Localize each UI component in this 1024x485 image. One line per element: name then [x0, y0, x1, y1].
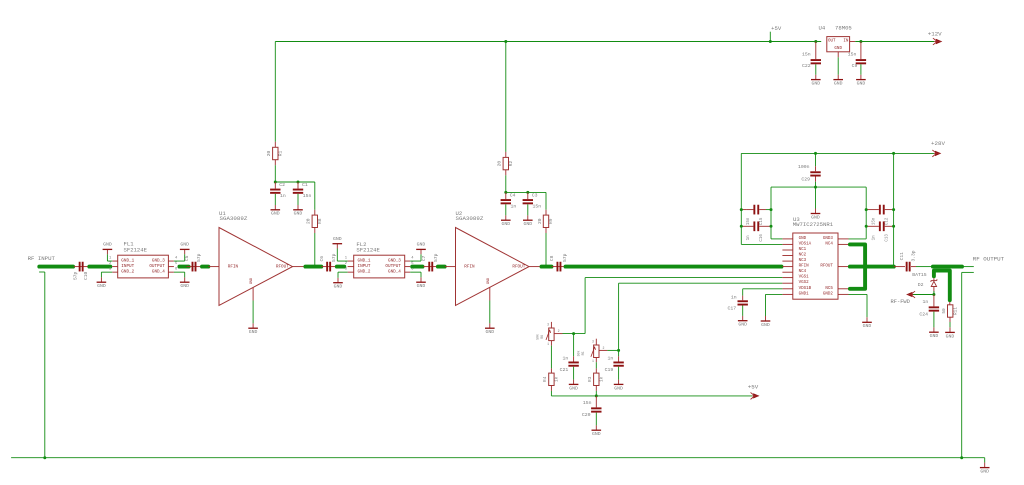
capacitor C12 15n	[879, 205, 881, 215]
svg-text:GND_2: GND_2	[121, 270, 134, 275]
wire RF output shield stub	[962, 271, 974, 273]
capacitor C29 100n	[815, 153, 817, 166]
svg-text:20: 20	[306, 218, 312, 224]
svg-text:VDS1A: VDS1A	[799, 242, 812, 246]
capacitor C5 57p	[187, 266, 202, 268]
junction ground rail C29	[814, 186, 817, 189]
ground below C24	[933, 312, 935, 328]
wire FL1 pin6 to ground	[174, 271, 185, 273]
resistor R2 20	[505, 152, 507, 158]
ground above FL2 pin1	[336, 249, 338, 262]
svg-text:GND: GND	[271, 211, 280, 217]
svg-text:+5V: +5V	[748, 383, 759, 390]
pin GND U2	[489, 288, 491, 301]
wire D2 to detector node	[933, 287, 935, 295]
svg-text:GND: GND	[97, 283, 106, 289]
svg-text:SGA3089Z: SGA3089Z	[456, 215, 484, 222]
svg-text:C2: C2	[279, 182, 285, 188]
svg-text:50k: 50k	[536, 334, 540, 340]
svg-text:C7: C7	[421, 255, 427, 261]
svg-text:GND_1: GND_1	[121, 259, 134, 264]
pin 2 FL2	[348, 266, 354, 268]
junction C13 right	[892, 225, 895, 228]
svg-text:MW7IC2725NR1: MW7IC2725NR1	[793, 221, 834, 228]
wire VGS1 vertical	[584, 278, 586, 334]
svg-text:GND: GND	[980, 469, 989, 475]
wire +12V rail right of U4	[850, 41, 856, 43]
wire +5V top rail	[275, 41, 821, 43]
wire FL2 pin1 to ground	[337, 260, 347, 262]
svg-text:3: 3	[547, 323, 549, 327]
wire detector to RF-FWD	[913, 294, 934, 296]
svg-text:GND: GND	[485, 329, 494, 335]
ground below C20	[595, 413, 597, 426]
svg-text:57p: 57p	[196, 253, 202, 262]
svg-text:RFIN: RFIN	[799, 265, 810, 269]
wire VGS2 vertical	[618, 283, 620, 350]
pin 2 FL1	[112, 266, 118, 268]
svg-text:2: 2	[558, 329, 560, 333]
wire C6 to FL2 thick segment	[337, 265, 345, 269]
svg-text:OUTPUT: OUTPUT	[149, 264, 165, 269]
svg-text:C13: C13	[885, 234, 889, 242]
ground below GND2	[866, 317, 868, 322]
svg-text:1n: 1n	[872, 235, 876, 241]
ground below C19	[618, 367, 620, 380]
svg-text:OUT: OUT	[828, 39, 836, 43]
svg-text:15n: 15n	[303, 193, 312, 199]
wire C7 to U2 thick segment	[438, 265, 445, 269]
svg-text:RFOUT: RFOUT	[276, 264, 289, 269]
pin 5 FL1	[168, 266, 174, 268]
capacitor C24 1n	[933, 295, 935, 307]
svg-text:VGS1: VGS1	[799, 276, 810, 280]
ground below C21	[573, 367, 575, 380]
svg-text:5: 5	[175, 262, 178, 266]
svg-text:GND: GND	[811, 81, 820, 87]
capacitor C7 57p	[423, 266, 438, 268]
ground below C29	[815, 209, 817, 214]
svg-text:C6: C6	[319, 256, 325, 262]
svg-text:1n: 1n	[511, 204, 517, 210]
capacitor C4 1n	[505, 192, 507, 199]
wire input shield stub	[39, 271, 45, 273]
junction C15 left	[740, 208, 743, 211]
wire R6 to R4	[550, 341, 552, 346]
svg-text:GND: GND	[592, 431, 601, 437]
svg-text:RF-FWD: RF-FWD	[890, 299, 909, 305]
wire +28V right vertical	[893, 153, 895, 266]
wire FL2 pin4 to ground	[410, 260, 421, 262]
svg-text:OUTPUT: OUTPUT	[385, 264, 401, 269]
svg-text:GND_3: GND_3	[388, 259, 401, 264]
wire VGS1 net horizontal	[585, 277, 782, 279]
svg-text:GND_1: GND_1	[358, 259, 371, 264]
ground below R11	[949, 327, 951, 332]
wire FL1 pin4 to ground	[174, 260, 185, 262]
svg-text:C11: C11	[899, 252, 905, 261]
svg-text:GND: GND	[250, 278, 254, 284]
svg-text:15n: 15n	[802, 52, 811, 58]
wire R6 wiper to VGS1	[563, 333, 586, 335]
svg-text:GND_3: GND_3	[152, 259, 165, 264]
svg-text:C4: C4	[510, 192, 516, 198]
capacitor C8 57p	[552, 266, 567, 268]
op-amp U2 SGA3089Z	[456, 228, 530, 306]
svg-text:C12: C12	[885, 217, 889, 225]
svg-text:NC3: NC3	[799, 259, 807, 263]
svg-text:20: 20	[537, 218, 543, 224]
junction C12 right	[892, 208, 895, 211]
svg-text:GND: GND	[834, 47, 842, 51]
wire C5 to U1 thick segment	[202, 265, 208, 269]
svg-text:+12V: +12V	[928, 31, 942, 38]
ground below C22	[815, 64, 817, 75]
svg-text:GND: GND	[103, 242, 112, 248]
svg-text:C9: C9	[852, 63, 858, 69]
wire RF output stub	[962, 266, 974, 268]
svg-text:BAT15: BAT15	[912, 272, 927, 278]
junction node1 C1	[297, 181, 300, 184]
wire R4 to +5V rail	[550, 386, 552, 391]
port arrow +28V	[935, 151, 941, 156]
svg-text:VDS1B: VDS1B	[799, 287, 812, 291]
svg-text:GND: GND	[333, 236, 342, 242]
capacitor C3 15n	[527, 192, 529, 199]
svg-text:3: 3	[345, 268, 348, 272]
pin 6 FL1	[168, 271, 174, 273]
pin 1 FL1	[112, 260, 118, 262]
svg-text:100n: 100n	[798, 164, 810, 170]
svg-text:GND: GND	[930, 333, 939, 339]
ground below FL1 pin3	[100, 272, 102, 277]
svg-text:15n: 15n	[583, 400, 592, 406]
capacitor C17 1n	[742, 296, 744, 301]
wire FL1 pin3 to ground	[101, 271, 112, 273]
svg-text:C20: C20	[582, 412, 591, 418]
filter FL1 SF2124E	[118, 255, 169, 278]
junction +28V right	[892, 152, 895, 155]
ground below C17	[742, 306, 744, 316]
svg-text:GND: GND	[799, 237, 807, 241]
svg-text:C5: C5	[184, 255, 190, 261]
svg-text:50k: 50k	[577, 351, 581, 357]
pins U3 left	[782, 238, 792, 240]
svg-text:57p: 57p	[562, 253, 568, 262]
svg-text:C22: C22	[802, 63, 811, 69]
wire R2 to bias node 2	[505, 170, 507, 176]
wire RF line to U3 thick	[566, 265, 782, 269]
trimmer R6 50k	[550, 322, 552, 328]
power amp U3 MW7IC2725NR1	[793, 233, 838, 299]
svg-text:RF OUTPUT: RF OUTPUT	[973, 255, 1005, 262]
wire RFOUT thick	[850, 265, 894, 269]
pin 6 FL2	[405, 271, 411, 273]
junction node2 C3	[526, 191, 529, 194]
svg-text:R2: R2	[508, 161, 514, 167]
wire VGS2 net horizontal	[619, 282, 783, 284]
wire VDS1B to C17	[743, 288, 783, 290]
wire +28V rail	[741, 152, 934, 154]
svg-text:GND: GND	[863, 323, 872, 329]
svg-text:GND: GND	[614, 385, 623, 391]
svg-text:RFIN: RFIN	[464, 264, 475, 269]
pin 3 FL2	[348, 271, 354, 273]
junction node2 C4	[504, 191, 507, 194]
svg-text:1n: 1n	[923, 299, 929, 305]
svg-text:SGA3089Z: SGA3089Z	[220, 215, 248, 222]
svg-text:20: 20	[497, 161, 503, 167]
svg-text:GND: GND	[857, 81, 866, 87]
capacitor C1 15n	[297, 182, 299, 189]
svg-text:4: 4	[411, 256, 414, 260]
svg-text:1n: 1n	[563, 355, 569, 361]
capacitor C10 57p	[74, 266, 89, 268]
capacitor C20 15n	[595, 396, 597, 408]
svg-text:GND: GND	[334, 284, 343, 290]
svg-text:C10: C10	[83, 272, 89, 281]
capacitor C15 15n	[741, 209, 746, 211]
svg-text:15n: 15n	[848, 52, 857, 58]
svg-text:GND3: GND3	[823, 237, 834, 241]
svg-text:NC5: NC5	[825, 287, 833, 291]
pin RFIN U1	[208, 266, 219, 268]
svg-text:C16: C16	[760, 234, 764, 242]
svg-text:+5V: +5V	[771, 25, 782, 32]
svg-text:1n: 1n	[280, 193, 286, 199]
svg-text:GND2: GND2	[823, 292, 834, 296]
svg-text:6: 6	[175, 268, 178, 272]
pin RFOUT U1	[293, 266, 304, 268]
wire RF output thick	[933, 265, 962, 269]
wire C29 to ground rail	[815, 177, 817, 182]
junction C20 tap	[595, 394, 598, 397]
svg-text:GND: GND	[761, 322, 770, 328]
svg-text:GND: GND	[249, 329, 258, 335]
op-amp U1 SGA3089Z	[219, 228, 293, 306]
pin 3 FL1	[112, 271, 118, 273]
wire GND1 pin to ground	[766, 293, 783, 295]
wire +5V drop to R1	[274, 42, 276, 142]
svg-text:NC4: NC4	[825, 242, 833, 246]
svg-text:SF2124E: SF2124E	[356, 247, 380, 254]
svg-text:C17: C17	[728, 305, 737, 311]
resistor R11 50	[949, 302, 951, 305]
svg-text:U4: U4	[818, 25, 825, 32]
wire GND2 to ground	[849, 293, 868, 295]
ground above FL1 pin1	[106, 254, 108, 261]
wire NC4-RFOUT-NC5 thick bracket	[850, 244, 865, 288]
svg-text:R11: R11	[954, 307, 959, 315]
wire FL2 output thick segment	[412, 265, 422, 269]
junction +5V stub	[769, 40, 772, 43]
svg-text:GND: GND	[523, 221, 532, 227]
wire bottom rail	[11, 457, 985, 459]
junction C21 tap	[572, 332, 575, 335]
junction node1 C2	[274, 181, 277, 184]
wire C29 center to GND symbol	[815, 187, 817, 208]
svg-text:R8: R8	[317, 218, 323, 224]
svg-text:GND: GND	[811, 214, 820, 220]
wire ground vertical to U3 GND pin	[771, 238, 782, 240]
wire +5V bottom rail	[551, 395, 752, 397]
svg-text:RFOUT: RFOUT	[820, 265, 833, 269]
svg-text:GND_4: GND_4	[152, 270, 165, 275]
svg-text:1k: 1k	[555, 376, 560, 382]
wire C10 to FL1 thick segment	[89, 265, 110, 269]
junction C15 right	[770, 208, 773, 211]
svg-text:78M05: 78M05	[835, 25, 852, 32]
trimmer R5 50k	[595, 339, 597, 345]
junction C12 left	[865, 208, 868, 211]
svg-text:NC2: NC2	[799, 254, 807, 258]
pin 4 FL2	[405, 260, 411, 262]
svg-text:1n: 1n	[731, 295, 737, 301]
junction C29 on +28V rail	[814, 152, 817, 155]
capacitor C6 57p	[321, 266, 336, 268]
junction C16 left	[740, 225, 743, 228]
capacitor C21 1n	[573, 334, 575, 357]
capacitor C22 15n	[815, 42, 817, 60]
svg-text:NC1: NC1	[799, 248, 807, 252]
svg-text:50: 50	[942, 308, 947, 314]
svg-text:3.3p: 3.3p	[910, 250, 916, 261]
wire R8 to U1 output line	[314, 228, 316, 234]
junction C22 tap	[814, 40, 817, 43]
svg-text:GND: GND	[569, 385, 578, 391]
wire ground vertical left of U3	[770, 187, 772, 239]
wire node2 down to R9	[545, 192, 547, 209]
pin 1 FL2	[348, 260, 354, 262]
pin RFIN U2	[445, 266, 456, 268]
junction C16 right	[770, 225, 773, 228]
svg-text:GND: GND	[417, 283, 426, 289]
wire FL1 pin1 to ground	[107, 260, 112, 262]
pins U3 right	[838, 238, 849, 240]
wire FL2 pin6 to ground	[410, 271, 421, 273]
svg-text:SF2124E: SF2124E	[124, 246, 148, 253]
svg-text:INPUT: INPUT	[358, 264, 371, 269]
svg-text:RFIN: RFIN	[228, 264, 239, 269]
wire ground sub-rail	[771, 186, 866, 188]
capacitor C13 1n	[879, 221, 881, 231]
junction C19 tap	[617, 349, 620, 352]
wire node1 down to R8	[314, 182, 316, 210]
wire +28V to VDS1A pin	[741, 243, 782, 245]
svg-text:GND: GND	[487, 278, 491, 284]
wire RF input thick segment	[39, 265, 73, 269]
svg-text:GND_4: GND_4	[388, 270, 401, 275]
wire bias node 1 horizontal	[275, 181, 315, 183]
svg-text:R9: R9	[548, 218, 554, 224]
svg-text:C19: C19	[605, 367, 614, 373]
svg-text:VGS2: VGS2	[799, 281, 810, 285]
ground above FL2 pin4	[420, 254, 422, 261]
ground below GND1	[765, 316, 767, 321]
svg-text:GND: GND	[180, 242, 189, 248]
ground below FL2 pin3	[337, 272, 339, 278]
svg-text:C3: C3	[532, 192, 538, 198]
capacitor C11 3.3p	[894, 266, 905, 268]
svg-text:1n: 1n	[747, 235, 751, 241]
svg-text:GND1: GND1	[799, 292, 810, 296]
ground below C4	[505, 204, 507, 215]
svg-text:3: 3	[592, 340, 594, 344]
resistor R1 20	[274, 142, 276, 148]
wire R11 to ground	[949, 317, 951, 322]
voltage regulator U4 78M05	[827, 37, 850, 52]
wire bottom rail end down	[984, 458, 986, 463]
svg-text:1: 1	[547, 342, 549, 346]
svg-text:R3: R3	[588, 376, 593, 382]
svg-text:15n: 15n	[747, 217, 751, 225]
junction C9 tap	[859, 40, 862, 43]
svg-text:GND: GND	[417, 242, 426, 248]
ground below FL1 pin6	[184, 272, 186, 277]
svg-text:+28V: +28V	[931, 140, 945, 147]
capacitor C16 1n	[753, 221, 755, 231]
wire +5V drop to R2	[505, 42, 507, 152]
svg-text:2: 2	[603, 346, 605, 350]
wire input shield drop to bottom rail	[44, 272, 46, 458]
filter FL2 SF2124E	[354, 255, 405, 278]
wire ground vertical to U3 GND3 pin	[849, 238, 867, 240]
wire detector tap thick	[934, 271, 950, 301]
wire R5 wiper to VGS2	[607, 349, 618, 351]
svg-text:R5: R5	[581, 352, 585, 356]
svg-text:20: 20	[266, 151, 272, 157]
pin 4 FL1	[168, 260, 174, 262]
svg-text:GND: GND	[180, 283, 189, 289]
resistor R8 20	[314, 210, 316, 215]
svg-text:NC4: NC4	[799, 270, 807, 274]
svg-text:2: 2	[345, 262, 348, 266]
svg-text:1: 1	[592, 359, 594, 363]
svg-text:57p: 57p	[73, 272, 79, 281]
wire U4 GND pin	[837, 52, 839, 58]
pin RFOUT U2	[529, 266, 540, 268]
wire R9 to U2 output line	[545, 228, 547, 234]
capacitor C9 15n	[860, 42, 862, 60]
svg-text:57p: 57p	[331, 253, 337, 262]
resistor R3 1k	[595, 368, 597, 373]
svg-text:3: 3	[109, 268, 112, 272]
ground bottom right	[984, 463, 986, 468]
ground below C2	[274, 194, 276, 205]
wire U1 output thick segment	[305, 265, 321, 269]
ground above FL1 pin4	[184, 254, 186, 261]
svg-text:C21: C21	[560, 367, 569, 373]
svg-text:R1: R1	[277, 151, 283, 157]
svg-text:GND: GND	[294, 211, 303, 217]
svg-text:R6: R6	[540, 335, 544, 339]
pin GND U1	[252, 288, 254, 301]
svg-text:INPUT: INPUT	[121, 264, 134, 269]
ground below C1	[297, 194, 299, 205]
svg-text:15n: 15n	[872, 217, 876, 225]
svg-text:C29: C29	[801, 176, 810, 182]
port arrow RF-FWD	[906, 292, 912, 297]
wire bias node 2 horizontal	[506, 191, 546, 193]
svg-text:1k: 1k	[600, 376, 605, 382]
svg-text:D2: D2	[918, 282, 924, 288]
port arrow +12V	[936, 39, 943, 44]
svg-text:GND: GND	[501, 221, 510, 227]
svg-text:1n: 1n	[608, 355, 614, 361]
svg-text:RF INPUT: RF INPUT	[28, 255, 56, 262]
wire R5 to R3	[595, 358, 597, 363]
junction bottom rail left	[43, 456, 46, 459]
